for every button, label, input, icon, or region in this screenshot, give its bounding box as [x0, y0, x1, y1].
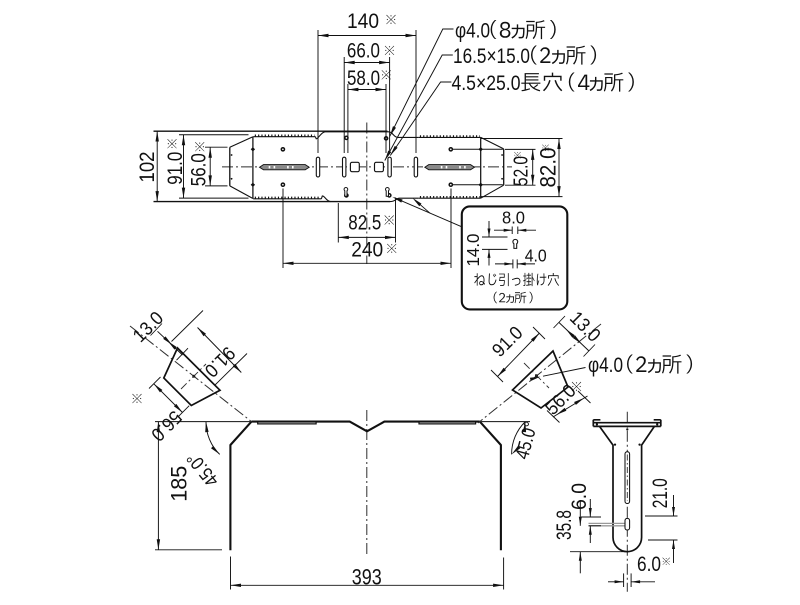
svg-text:φ4.0: φ4.0: [588, 354, 623, 377]
svg-text:82.0: 82.0: [536, 148, 561, 188]
svg-text:6.0: 6.0: [568, 483, 591, 510]
callout phi4.0 (8 places): [390, 29, 454, 136]
svg-text:82.5: 82.5: [348, 212, 381, 235]
phi 4.0 holes: [281, 148, 284, 151]
outer rail top edge: [154, 130, 388, 132]
right flange bend lines: [452, 148, 503, 150]
left slide plate bend line: [252, 137, 254, 199]
right slide plate taper edges: [481, 137, 504, 149]
screw hook keyholes: [344, 187, 348, 196]
svg-text:140: 140: [347, 10, 379, 33]
side dim 35.8: [570, 551, 628, 553]
inner rail bottom edge: [179, 197, 249, 199]
left end plate projected outline: [164, 348, 220, 406]
svg-text:21.0: 21.0: [649, 478, 672, 508]
detail box frame: [462, 206, 568, 309]
front view vertical centerline: [366, 410, 368, 557]
svg-text:16.5×15.0: 16.5×15.0: [453, 45, 530, 68]
side view flange rivets: [596, 423, 598, 425]
left 45 deg angle dim: [206, 422, 220, 455]
top view: crossbar assembly (plan): [154, 123, 513, 265]
dimension 56.0: [205, 146, 228, 148]
right slide plate bend line: [480, 137, 482, 198]
right dim 13.0: [559, 323, 589, 352]
right end plate hole + cross centerline: [535, 374, 538, 377]
dimension 82.0: [481, 138, 563, 140]
side view flange + body outline: [593, 420, 661, 552]
right end plate projected outline: [513, 351, 569, 408]
left slide plate taper edges: [230, 137, 253, 148]
left end plate hole + cross centerline: [192, 375, 195, 378]
side dim 6.0 bottom: [623, 573, 625, 587]
left long slot: [260, 165, 310, 170]
right dim 91.0: [498, 333, 540, 377]
svg-text:8.0: 8.0: [502, 208, 525, 228]
svg-text:52.0: 52.0: [511, 156, 533, 186]
side dim 21.0: [645, 515, 678, 517]
callout phi4.0 (2 places): [543, 368, 586, 377]
side dim 6.0 upper: [581, 516, 601, 518]
left slide plate serrated bottom edge: [253, 198, 321, 200]
detail label: (2 places): [494, 292, 533, 304]
right slide plate serrated bottom edge: [399, 197, 419, 199]
left slide plate serrated top edge: [253, 136, 315, 138]
svg-text:4.0: 4.0: [525, 246, 547, 266]
dimension 240: [282, 189, 284, 269]
svg-text:4.5×25.0: 4.5×25.0: [452, 72, 521, 95]
svg-text:6.0: 6.0: [637, 553, 661, 576]
side view vertical centerline: [626, 412, 628, 592]
callout 4.5x25.0 slotted holes (4 places): [390, 82, 451, 156]
side view lower oblong hole: [625, 518, 630, 530]
left bend markers: [251, 147, 255, 151]
right bend markers: [479, 147, 483, 151]
left slide plate tip edge: [229, 147, 231, 186]
right long slot: [425, 165, 475, 170]
svg-text:66.0: 66.0: [347, 39, 380, 62]
left end plate projected view axis: [130, 326, 252, 422]
dimension 66.0: [343, 57, 345, 153]
detail box leader: [395, 198, 462, 227]
svg-text:102: 102: [136, 152, 159, 183]
front view hem lines: [258, 422, 316, 424]
inner rail top edge: [179, 134, 249, 136]
left dim 91.0: [198, 328, 242, 373]
svg-text:185: 185: [167, 466, 192, 502]
dimension 82.5: [337, 203, 339, 243]
top view horizontal centerline: [222, 166, 512, 168]
square holes 16.5x15: [350, 162, 359, 171]
svg-text:393: 393: [352, 564, 382, 589]
svg-text:φ4.0: φ4.0: [455, 20, 490, 43]
outer rail bottom edge: [154, 201, 391, 203]
right dim 56.0: [553, 396, 588, 417]
svg-text:240: 240: [351, 239, 383, 262]
left dim 13.0: [158, 331, 183, 355]
dimension 393: [230, 557, 232, 590]
left dim 56.0: [154, 384, 183, 413]
detail label: screw hook hole: [474, 273, 559, 286]
right end plate projected view axis: [478, 324, 601, 423]
svg-text:14.0: 14.0: [463, 233, 483, 266]
dimension 52.0: [505, 148, 536, 150]
dimension 102: [156, 131, 158, 202]
callout 16.5x15.0 (2 places): [385, 55, 453, 161]
right slide plate tip edge: [503, 149, 505, 185]
edge transition curves: [315, 132, 398, 139]
svg-text:58.0: 58.0: [347, 67, 380, 90]
detail keyhole symbol: [513, 239, 518, 248]
top view vertical centerline: [366, 123, 368, 265]
dimension 185: [155, 421, 252, 423]
oblong holes 4.5x25: [316, 157, 319, 177]
right slide plate serrated top edge: [398, 136, 418, 138]
svg-text:91.0: 91.0: [164, 152, 187, 185]
dimension 58.0: [347, 84, 349, 153]
svg-text:35.8: 35.8: [553, 510, 576, 540]
side view long slot: [625, 452, 630, 504]
right 45 deg angle dim: [480, 421, 530, 423]
dimension 91.0: [183, 135, 185, 198]
dimension 140: [317, 30, 319, 153]
svg-text:56.0: 56.0: [188, 153, 211, 186]
front view outline: [230, 422, 501, 551]
side view rail section (grey): [589, 522, 626, 524]
